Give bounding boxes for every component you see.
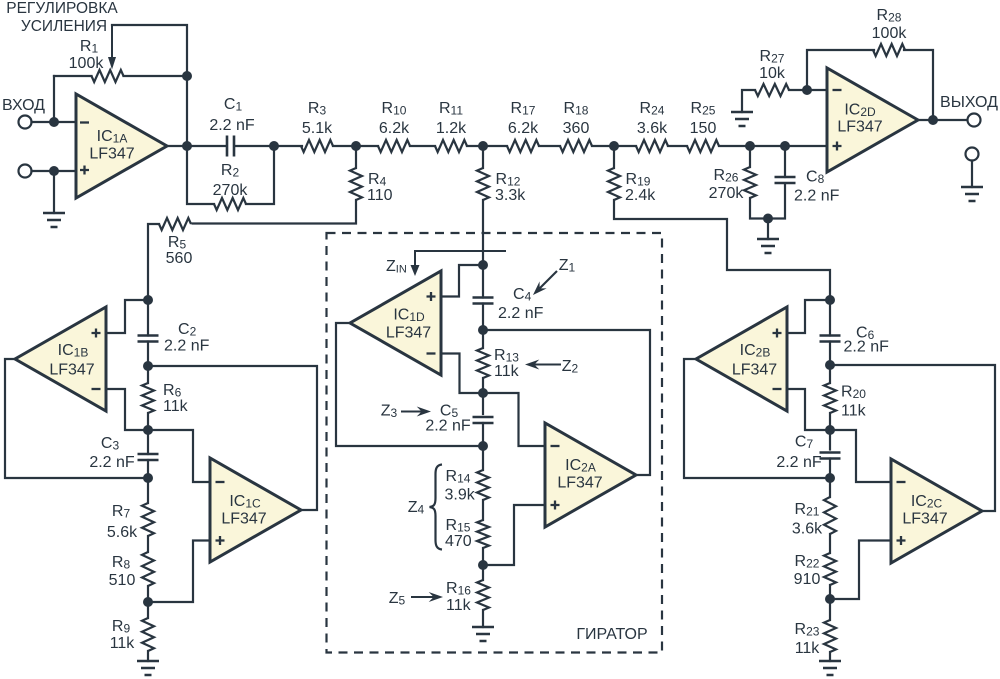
wire C2 bottom lead — [147, 342, 149, 367]
wire IC1B minus input — [106, 389, 148, 430]
svg-text:R21: R21 — [795, 501, 820, 519]
node L5 (R8/R9) — [143, 597, 153, 607]
svg-text:6.2k: 6.2k — [379, 120, 410, 137]
svg-text:R1: R1 — [80, 38, 99, 56]
resistor R14 3.9k — [477, 470, 489, 500]
Z_IN crossing bar — [415, 250, 505, 252]
node IC2D output — [928, 115, 938, 125]
wire M3 to IC2A minus — [483, 393, 545, 446]
wire C4 bottom lead — [482, 304, 484, 349]
wire wiper to top — [112, 25, 187, 76]
svg-text:11k: 11k — [841, 403, 867, 420]
svg-text:R26: R26 — [714, 167, 739, 185]
ground R27 — [731, 112, 753, 126]
input terminal upper — [19, 116, 32, 129]
op-amp IC1A — [76, 94, 167, 198]
wire node down to output — [186, 76, 188, 146]
wire C2 top lead — [147, 300, 149, 336]
svg-text:Z1: Z1 — [559, 257, 576, 275]
svg-text:R16: R16 — [446, 580, 471, 598]
node M3 (R13/C5) — [478, 388, 488, 398]
svg-text:IC2A: IC2A — [565, 457, 596, 475]
node M4 (C5 bottom) — [478, 441, 488, 451]
svg-text:R2: R2 — [221, 162, 240, 180]
svg-text:R22: R22 — [795, 553, 820, 571]
wire R3n to IC2C minus — [830, 430, 891, 482]
svg-text:R17: R17 — [511, 100, 536, 118]
resistor R21 3.6k — [824, 497, 836, 534]
resistor R11 1.2k — [435, 140, 467, 152]
wire IC2D output — [917, 119, 968, 121]
op-amp IC1C — [210, 458, 301, 562]
node L3 (R6/C3) — [143, 425, 153, 435]
potentiometer R1 100k (zigzag) — [92, 70, 124, 82]
wire L3 to IC1C minus — [148, 430, 210, 482]
node E (R26 tap) — [745, 141, 755, 151]
svg-text:2.2 nF: 2.2 nF — [425, 418, 471, 435]
svg-text:LF347: LF347 — [49, 362, 94, 379]
svg-text:R3: R3 — [308, 100, 327, 118]
svg-text:ZIN: ZIN — [386, 258, 407, 276]
resistor R17 6.2k — [507, 140, 539, 152]
wire R23 to ground — [829, 652, 831, 661]
op-amp IC2B — [696, 307, 787, 411]
ground R26/C8 — [757, 239, 779, 253]
svg-text:10k: 10k — [759, 65, 786, 82]
svg-text:IC1D: IC1D — [393, 307, 425, 325]
wire C1 to node A — [235, 145, 303, 147]
wire R26 top — [749, 146, 751, 167]
wire R6 top — [147, 366, 149, 383]
svg-text:LF347: LF347 — [221, 511, 266, 528]
op-amp IC1D — [350, 271, 441, 375]
svg-text:150: 150 — [690, 120, 717, 137]
svg-text:2.2 nF: 2.2 nF — [776, 454, 822, 471]
wire R5n to IC2C plus — [830, 541, 891, 600]
resistor R25 150 — [687, 140, 719, 152]
wire R6 bottom — [147, 413, 149, 454]
node R4n (C7 bottom) — [825, 473, 835, 483]
node R2n (C6/R20) — [825, 360, 835, 370]
svg-text:11k: 11k — [795, 640, 821, 657]
svg-text:R14: R14 — [446, 468, 471, 486]
wire L5 to IC1C plus — [148, 541, 210, 603]
node lower input — [49, 166, 59, 176]
node L2 (C2/R6) — [143, 361, 153, 371]
wire return terminal to ground — [971, 161, 973, 188]
svg-text:C3: C3 — [101, 435, 120, 453]
wire IC1B output loop — [5, 359, 148, 478]
svg-text:11k: 11k — [110, 635, 136, 652]
node IC1A output — [182, 141, 192, 151]
wire R27 left to ground — [742, 90, 755, 112]
svg-text:R27: R27 — [760, 48, 785, 66]
svg-text:R20: R20 — [841, 384, 866, 402]
resistor R9 11k — [142, 618, 154, 651]
svg-text:2.2 nF: 2.2 nF — [164, 338, 210, 355]
svg-text:R25: R25 — [691, 100, 716, 118]
Z1 arrow — [540, 271, 557, 288]
svg-text:IC2C: IC2C — [911, 493, 943, 511]
svg-text:11k: 11k — [446, 597, 472, 614]
wire IC1C feedback to L2 — [148, 366, 317, 510]
svg-text:Z3: Z3 — [381, 403, 398, 421]
op-amp IC2C — [891, 459, 982, 563]
wire R28 feedback loop — [807, 50, 874, 90]
IC1D pin signs — [427, 352, 436, 354]
svg-text:R15: R15 — [446, 517, 471, 535]
wire R1 right lead to node — [124, 75, 188, 77]
dashed box ГИРАТОР — [327, 233, 663, 653]
svg-text:C7: C7 — [795, 434, 814, 452]
ground left block — [137, 661, 159, 675]
svg-text:ГИРАТОР: ГИРАТОР — [576, 626, 647, 643]
svg-text:R18: R18 — [564, 100, 589, 118]
svg-text:1.2k: 1.2k — [436, 120, 467, 137]
svg-text:360: 360 — [563, 120, 590, 137]
resistor R23 11k — [824, 620, 836, 652]
svg-text:R23: R23 — [795, 621, 820, 639]
svg-text:R12: R12 — [496, 171, 521, 189]
wire input node up to R1 — [53, 76, 55, 122]
resistor R4 110 — [350, 168, 362, 200]
svg-text:R6: R6 — [163, 382, 182, 400]
wire R16 to ground — [482, 610, 484, 627]
svg-text:11k: 11k — [494, 363, 520, 380]
wire R20 bottom — [829, 413, 831, 450]
resistor R12 3.3k — [477, 168, 489, 200]
wire C7 bottom lead — [829, 459, 831, 498]
wire lower input to ground — [53, 171, 55, 213]
resistor R28 100k — [873, 44, 905, 56]
resistor R8 510 — [142, 552, 154, 586]
capacitor C5 2.2nF — [473, 417, 494, 423]
node M1 (C4 top) — [478, 260, 488, 270]
wire R25 to IC2D — [719, 145, 827, 147]
svg-text:LF347: LF347 — [557, 475, 602, 492]
wire R27 right to minus node — [789, 89, 827, 91]
ground input — [43, 213, 65, 227]
svg-text:470: 470 — [445, 533, 472, 550]
svg-text:100k: 100k — [69, 55, 105, 72]
svg-text:IC1C: IC1C — [229, 493, 261, 511]
IC2D pin signs — [833, 89, 842, 91]
wire IC1A output — [167, 145, 227, 147]
IC2C pin signs — [897, 481, 906, 483]
IC1B pin signs — [92, 388, 101, 390]
svg-text:R9: R9 — [112, 618, 131, 636]
svg-text:5.6k: 5.6k — [107, 524, 138, 541]
wire upper input to op-amp — [32, 121, 77, 123]
svg-text:2.2 nF: 2.2 nF — [498, 305, 544, 322]
wire C3 bottom lead — [147, 460, 149, 503]
svg-text:IC2B: IC2B — [740, 342, 771, 360]
R1 wiper arrow — [111, 26, 113, 59]
svg-text:2.4k: 2.4k — [625, 187, 656, 204]
IC1C pin signs — [216, 481, 225, 483]
resistor R22 910 — [824, 553, 836, 585]
output terminal — [968, 114, 981, 127]
svg-text:2.2 nF: 2.2 nF — [89, 454, 135, 471]
wire C6 bottom lead — [829, 342, 831, 367]
wire R4 top — [355, 146, 357, 168]
svg-text:IC1A: IC1A — [97, 128, 128, 146]
wire R5 left lead down — [148, 224, 159, 300]
IC2A pin signs — [551, 445, 560, 447]
wire R17-R18 — [539, 145, 560, 147]
svg-text:3.6k: 3.6k — [637, 120, 668, 137]
wire R2 feedback loop — [187, 146, 214, 204]
node C (R12 tap) — [478, 141, 488, 151]
svg-text:270k: 270k — [213, 182, 249, 199]
wire R22 bottom — [829, 585, 831, 620]
capacitor C2 2.2nF — [138, 336, 159, 342]
svg-text:2.2 nF: 2.2 nF — [844, 339, 890, 356]
node B (R4 tap) — [351, 141, 361, 151]
resistor R10 6.2k — [378, 140, 410, 152]
svg-text:IC1B: IC1B — [58, 342, 89, 360]
resistor R3 5.1k — [301, 140, 333, 152]
node A — [269, 141, 279, 151]
svg-text:3.9k: 3.9k — [445, 487, 476, 504]
resistor R20 11k — [824, 383, 836, 413]
svg-text:2.2 nF: 2.2 nF — [794, 188, 840, 205]
wire R10-R11 — [410, 145, 435, 147]
node R5n (R22/R23) — [825, 594, 835, 604]
op-amp IC2D — [827, 68, 918, 172]
svg-text:C4: C4 — [513, 286, 532, 304]
svg-text:R13: R13 — [494, 347, 519, 365]
wire IC1B plus input — [106, 300, 148, 333]
svg-text:110: 110 — [367, 187, 393, 204]
svg-text:6.2k: 6.2k — [508, 120, 539, 137]
node L1 (C2 top) — [143, 295, 153, 305]
wire R9 to ground — [147, 651, 149, 661]
wire IC1D minus input — [441, 354, 483, 394]
wire IC2B plus input — [787, 300, 830, 333]
op-amp IC1B — [15, 307, 106, 411]
wire R19 bottom to right gyrator — [614, 200, 830, 300]
wire R3 to R10 — [333, 145, 378, 147]
wire C5 bottom lead — [482, 423, 484, 470]
wire IC1D plus input — [441, 265, 483, 297]
capacitor C3 2.2nF — [138, 454, 159, 460]
node G (ground junction) — [763, 214, 773, 224]
wire IC1D output loop — [336, 323, 483, 446]
resistor R6 11k — [142, 383, 154, 413]
svg-text:Z4: Z4 — [408, 499, 425, 517]
wire R12 down into gyrator — [482, 200, 484, 265]
IC1A pin signs — [80, 121, 89, 123]
node M2 (C4/R13) — [478, 325, 488, 335]
svg-text:LF347: LF347 — [89, 146, 134, 163]
wire R14-R15 — [482, 500, 484, 520]
svg-text:5.1k: 5.1k — [302, 120, 333, 137]
svg-text:C1: C1 — [224, 96, 243, 114]
svg-text:R8: R8 — [112, 554, 131, 572]
svg-text:3.6k: 3.6k — [792, 521, 823, 538]
node R3n (R20/C7) — [825, 425, 835, 435]
svg-text:LF347: LF347 — [837, 119, 882, 136]
wire lower input to op-amp — [32, 170, 77, 172]
svg-text:ВХОД: ВХОД — [2, 97, 45, 114]
svg-text:510: 510 — [109, 572, 136, 589]
wire M5 to IC2A plus — [483, 505, 545, 565]
wire C6 top lead — [829, 300, 831, 336]
wire R20 top — [829, 366, 831, 383]
svg-text:910: 910 — [794, 571, 821, 588]
wire IC2C feedback — [830, 365, 995, 511]
svg-text:LF347: LF347 — [386, 325, 431, 342]
svg-text:R7: R7 — [112, 503, 131, 521]
resistor R19 2.4k — [608, 168, 620, 200]
wire C8 top — [784, 146, 786, 177]
wire R26/C8 bottom junction — [750, 184, 785, 219]
svg-text:Z2: Z2 — [562, 358, 579, 376]
resistor R24 3.6k — [636, 140, 668, 152]
resistor R26 270k — [744, 167, 756, 198]
svg-text:LF347: LF347 — [732, 362, 777, 379]
wire junction to ground — [767, 219, 769, 240]
capacitor C4 2.2nF — [473, 298, 494, 304]
svg-text:ВЫХОД: ВЫХОД — [940, 94, 998, 111]
wire R12 top — [482, 146, 484, 168]
IC2B pin signs — [773, 388, 782, 390]
capacitor C1 2.2nF — [227, 136, 234, 157]
node F (C8 tap) — [780, 141, 790, 151]
ground right block — [819, 661, 841, 675]
svg-text:100k: 100k — [872, 25, 908, 42]
svg-text:R11: R11 — [439, 100, 463, 118]
ground middle block — [472, 627, 494, 641]
resistor R15 470 — [477, 520, 489, 548]
op-amp IC2A — [545, 423, 636, 527]
wire R1 left lead — [54, 75, 92, 77]
wire R18 to R24 — [592, 145, 636, 147]
ground output return — [961, 187, 983, 201]
svg-text:R19: R19 — [626, 171, 651, 189]
svg-text:C8: C8 — [806, 169, 825, 187]
resistor R18 360 — [560, 140, 592, 152]
svg-text:РЕГУЛИРОВКА: РЕГУЛИРОВКА — [6, 0, 118, 17]
svg-text:11k: 11k — [163, 398, 189, 415]
node upper input — [49, 117, 59, 127]
svg-text:C2: C2 — [178, 321, 197, 339]
node R1n (C6 top) — [825, 295, 835, 305]
resistor R2 270k — [214, 198, 246, 210]
resistor R7 5.6k — [142, 503, 154, 536]
wire R11 to R17 — [467, 145, 507, 147]
svg-text:УСИЛЕНИЯ: УСИЛЕНИЯ — [21, 18, 107, 35]
svg-text:IC2D: IC2D — [844, 102, 876, 120]
capacitor C7 2.2nF — [820, 453, 841, 459]
Z_IN arrow — [414, 251, 416, 267]
node L4 (C3 bottom) — [143, 473, 153, 483]
wire IC2A output loop — [483, 330, 650, 475]
wire R19 top — [613, 146, 615, 168]
svg-text:Z5: Z5 — [389, 590, 406, 608]
svg-text:R5: R5 — [168, 234, 187, 252]
resistor R13 11k — [477, 348, 489, 378]
wire R7-R8 — [147, 536, 149, 552]
node R1-right junction — [182, 71, 192, 81]
wire IC2B output loop — [684, 359, 830, 478]
svg-text:R4: R4 — [368, 171, 387, 189]
resistor R27 10k — [755, 84, 789, 96]
resistor R16 11k — [477, 580, 489, 610]
svg-text:R10: R10 — [382, 100, 407, 118]
Z3 arrow — [401, 410, 422, 412]
node M5 (R15/R16) — [478, 560, 488, 570]
svg-text:R24: R24 — [640, 100, 665, 118]
svg-text:560: 560 — [166, 250, 193, 267]
Z5 arrow — [411, 596, 434, 598]
Z4 brace — [430, 465, 443, 550]
wire R21-R22 — [829, 534, 831, 553]
svg-text:LF347: LF347 — [902, 511, 947, 528]
wire C4 top lead — [482, 265, 484, 298]
resistor R5 560 — [159, 218, 191, 230]
node H (IC2D inverting) — [802, 85, 812, 95]
input terminal lower — [19, 165, 32, 178]
capacitor C8 2.2nF — [775, 177, 796, 183]
output return terminal — [966, 148, 979, 161]
capacitor C6 2.2nF — [820, 336, 841, 342]
Z2 arrow — [534, 363, 561, 365]
svg-text:3.3k: 3.3k — [495, 187, 526, 204]
svg-text:270k: 270k — [709, 185, 745, 202]
wire R8 bottom — [147, 586, 149, 618]
svg-text:2.2 nF: 2.2 nF — [209, 117, 255, 134]
svg-text:R28: R28 — [877, 7, 902, 25]
wire R4 bottom to R5 — [193, 200, 357, 224]
wire R13 bottom — [482, 378, 484, 414]
node D (R19 tap) — [609, 141, 619, 151]
wire R24-R25 — [668, 145, 687, 147]
wire IC2B minus input — [787, 389, 830, 430]
wire R15 bottom — [482, 548, 484, 580]
